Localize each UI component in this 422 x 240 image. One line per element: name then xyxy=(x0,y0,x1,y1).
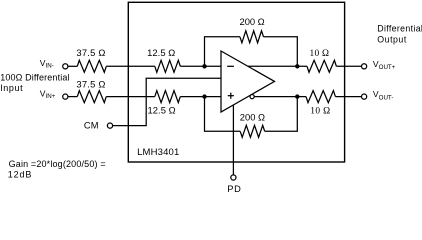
node junction lower input/feedback xyxy=(202,94,206,98)
node junction upper input/feedback xyxy=(202,64,206,68)
svg-text:12.5 Ω: 12.5 Ω xyxy=(148,105,176,116)
terminal V_OUT+ xyxy=(362,64,367,69)
op-amp U1 LMH3401 triangle xyxy=(221,51,275,112)
wire top feedback loop xyxy=(205,37,240,67)
resistor R1 37.5 ohm (V_IN- series) xyxy=(77,60,106,72)
svg-text:VIN+: VIN+ xyxy=(40,89,56,101)
svg-text:37.5 Ω: 37.5 Ω xyxy=(76,47,105,58)
resistor R6 200 ohm (bottom feedback) xyxy=(240,125,265,137)
wire xyxy=(106,65,155,67)
svg-text:12.5 Ω: 12.5 Ω xyxy=(147,47,175,58)
svg-text:10 Ω: 10 Ω xyxy=(310,49,330,59)
wire xyxy=(180,65,221,67)
wire lower output rail xyxy=(254,96,306,98)
svg-text:CM: CM xyxy=(84,121,99,131)
svg-text:LMH3401: LMH3401 xyxy=(137,147,179,158)
svg-text:12dB: 12dB xyxy=(8,170,32,180)
wire xyxy=(336,65,361,67)
svg-text:200 Ω: 200 Ω xyxy=(240,16,265,27)
wire V_IN- rail to amp xyxy=(68,65,77,67)
svg-text:Input: Input xyxy=(0,83,23,93)
wire xyxy=(106,96,155,98)
wire PD pin xyxy=(232,105,234,175)
wire bottom feedback loop xyxy=(205,97,241,132)
svg-text:Gain =20*log(200/50) =: Gain =20*log(200/50) = xyxy=(9,159,106,169)
terminal V_OUT- xyxy=(362,94,367,99)
IC boundary box LMH3401 xyxy=(128,2,344,162)
resistor R5 200 ohm (top feedback) xyxy=(240,31,264,43)
wire xyxy=(180,96,221,98)
plus input symbol xyxy=(228,95,234,97)
svg-text:VOUT-: VOUT- xyxy=(373,89,394,101)
resistor R3 12.5 ohm (internal, inverting input) xyxy=(155,60,181,72)
resistor R8 10 ohm (lower output series) xyxy=(306,91,335,103)
wire V_IN+ rail to amp xyxy=(68,96,77,98)
svg-text:10 Ω: 10 Ω xyxy=(310,106,330,116)
terminal V_IN+ xyxy=(63,94,68,99)
svg-text:100Ω Differential: 100Ω Differential xyxy=(0,73,69,83)
resistor R4 12.5 ohm (internal, non-inverting input) xyxy=(155,91,181,103)
terminal V_IN- xyxy=(63,64,68,69)
node junction lower output/feedback xyxy=(295,94,299,98)
resistor R2 37.5 ohm (V_IN+ series) xyxy=(77,91,106,103)
svg-text:VIN-: VIN- xyxy=(40,58,54,70)
node junction upper output/feedback xyxy=(295,64,299,68)
svg-text:Differential: Differential xyxy=(377,24,422,34)
svg-text:Output: Output xyxy=(377,34,407,44)
svg-text:VOUT+: VOUT+ xyxy=(373,59,396,71)
wire xyxy=(335,96,361,98)
wire CM routing xyxy=(113,78,221,125)
inversion bubble on lower amp output xyxy=(250,95,254,99)
svg-text:37.5 Ω: 37.5 Ω xyxy=(76,78,105,89)
terminal CM xyxy=(107,123,112,128)
wire upper output rail xyxy=(248,65,307,67)
svg-text:200 Ω: 200 Ω xyxy=(240,111,265,122)
terminal PD xyxy=(231,175,236,180)
resistor R7 10 ohm (upper output series) xyxy=(307,60,336,72)
svg-text:PD: PD xyxy=(227,184,241,194)
minus input symbol xyxy=(227,65,234,67)
wire xyxy=(264,37,298,67)
wire xyxy=(265,97,298,132)
